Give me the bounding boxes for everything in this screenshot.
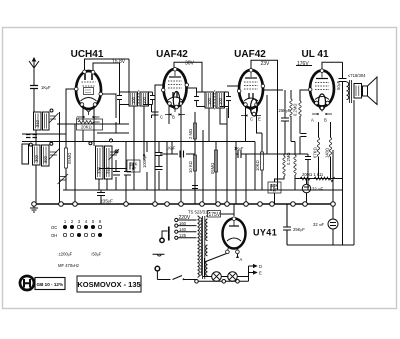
capacitor 235pF on bus	[97, 190, 105, 204]
svg-text:D: D	[259, 264, 262, 269]
svg-text:20KΩ: 20KΩ	[81, 125, 92, 130]
pin circle 3	[50, 142, 53, 145]
legend dots OC/OH	[63, 225, 101, 236]
svg-text:OC: OC	[51, 225, 57, 230]
wire V3 plate right	[263, 89, 283, 91]
coil L1a2 upper	[43, 112, 50, 130]
cathode ring V4	[319, 94, 326, 110]
resistor 10K vertical	[194, 155, 197, 171]
svg-text:2 MΩ: 2 MΩ	[188, 129, 193, 139]
capacitor small right	[305, 154, 311, 190]
svg-text:30V: 30V	[185, 61, 195, 67]
earth terminal	[160, 227, 169, 243]
wire coupling to UL41 grid	[236, 153, 308, 155]
mains switch lever	[173, 276, 197, 280]
svg-text:175V: 175V	[209, 212, 221, 218]
trimmer upper	[49, 113, 59, 123]
svg-text:200Ω 1 KΩ: 200Ω 1 KΩ	[302, 172, 323, 177]
wire x75	[74, 124, 76, 204]
svg-text:C: C	[250, 117, 253, 122]
capacitor 50pF	[339, 79, 347, 82]
svg-text:TS 523/315: TS 523/315	[188, 210, 210, 215]
svg-text:UAF42: UAF42	[234, 49, 266, 60]
ground symbol	[30, 204, 38, 212]
box 175V	[208, 211, 221, 218]
wire ground bus	[34, 203, 333, 205]
cathode ring V2	[173, 92, 179, 109]
svg-text:300: 300	[43, 155, 48, 163]
capacitor x159	[156, 167, 163, 170]
wire UY41 cathode drop	[205, 254, 238, 277]
coil osc 1	[96, 146, 104, 179]
pot 0.5M vertical	[215, 150, 218, 172]
svg-text:50pF: 50pF	[336, 81, 341, 90]
title box	[77, 276, 141, 292]
svg-text:15.8V: 15.8V	[112, 59, 126, 65]
svg-text:A: A	[311, 118, 314, 123]
resistor 67K wavy	[317, 138, 319, 157]
svg-text:100: 100	[142, 96, 147, 104]
svg-text:160: 160	[179, 221, 187, 226]
wire top rail stage1	[85, 59, 130, 72]
wire x293	[291, 90, 295, 190]
svg-text:235pF: 235pF	[100, 199, 113, 205]
fuse symbol	[153, 254, 165, 256]
resistor grid wavy x300	[299, 101, 301, 116]
wire x227	[226, 108, 228, 204]
svg-text:100: 100	[131, 96, 136, 104]
svg-text:125: 125	[179, 233, 187, 238]
svg-text:310: 310	[35, 119, 40, 127]
svg-text:32 mF: 32 mF	[313, 222, 324, 227]
wire top rail stage1b	[93, 63, 120, 92]
svg-text:05MΩ: 05MΩ	[210, 163, 215, 174]
coil L1c lower	[42, 145, 50, 166]
svg-text:UL 41: UL 41	[301, 49, 328, 60]
tube V3 UAF42	[237, 68, 264, 116]
svg-text:23V: 23V	[261, 61, 271, 67]
wire lamps	[203, 266, 249, 281]
coil L1a antenna upper	[34, 112, 42, 130]
capacitor antenna 1KpF	[30, 86, 38, 89]
svg-text:UAF42: UAF42	[156, 49, 188, 60]
capacitor osc pad b	[124, 172, 131, 176]
wire antenna coil down	[35, 130, 37, 204]
wire output resistor line	[295, 178, 343, 180]
svg-text:25KpF: 25KpF	[279, 108, 291, 113]
primary box	[22, 144, 29, 164]
wire x333	[332, 150, 334, 245]
logo mark	[20, 276, 65, 290]
resistor 0.5M avc	[65, 148, 68, 168]
svg-text:GB 10 - 12%: GB 10 - 12%	[37, 282, 64, 287]
svg-text:UCH41: UCH41	[71, 49, 104, 60]
wire V3 pins down	[246, 107, 263, 142]
capacitor 100KpF mid	[156, 153, 163, 156]
wire IF1 bottoms	[120, 105, 152, 191]
coil osc 2	[105, 146, 113, 179]
svg-text:100: 100	[218, 97, 223, 105]
wire x203	[202, 130, 204, 204]
svg-text:C: C	[160, 115, 163, 120]
capacitor coupling V2 out	[180, 151, 184, 158]
capacitor 25KpF vertical	[281, 118, 289, 121]
wire x126	[125, 142, 127, 205]
resistor 1Kohm	[314, 177, 335, 182]
svg-text:1KpF: 1KpF	[234, 146, 244, 151]
wire x147	[146, 142, 148, 191]
svg-text:10 KΩ: 10 KΩ	[188, 161, 193, 173]
wire top rail stage4	[296, 62, 343, 71]
wire heater line	[197, 280, 249, 282]
wire antenna lead	[33, 75, 35, 112]
padder cap	[58, 174, 69, 184]
transformer taps	[175, 218, 197, 239]
wire x270	[267, 95, 284, 204]
wire x216	[215, 142, 217, 205]
wire IF2 bottoms	[209, 107, 229, 142]
svg-text:pF: pF	[132, 166, 137, 171]
capacitor UL41 grid small	[301, 134, 307, 137]
svg-text:E: E	[258, 117, 261, 122]
pin circle 2	[50, 109, 53, 112]
capacitor 1KpF coupling	[238, 150, 241, 158]
svg-text:05MΩ: 05MΩ	[67, 153, 72, 164]
electrolytic 32mF lower	[328, 219, 338, 229]
svg-text:UY41: UY41	[253, 228, 277, 238]
cathode ring V3	[251, 99, 258, 116]
wire rail y124	[57, 123, 129, 125]
wire rail y133	[22, 133, 129, 134]
wire transformer top to 175V	[206, 214, 234, 216]
variable cap CV2	[109, 149, 120, 160]
svg-text:MF 470kHz: MF 470kHz	[58, 263, 79, 268]
svg-text:100: 100	[207, 97, 212, 105]
wire x159	[158, 142, 160, 191]
capacitor 50KpF mid box	[127, 160, 140, 172]
wire x307 cap32	[306, 179, 308, 205]
IF can 2	[194, 90, 231, 110]
capacitor double pair left	[26, 135, 37, 138]
wire B- rail	[63, 189, 343, 191]
node circles on ground bus	[32, 202, 336, 207]
svg-text:330: 330	[97, 166, 102, 174]
IF can 1	[117, 90, 155, 108]
wire x66 avc resistor	[66, 89, 76, 190]
pin circle osc a	[89, 142, 92, 145]
svg-text:±200µF: ±200µF	[59, 252, 73, 257]
pin circle 1	[29, 143, 32, 146]
wire osc grid	[101, 94, 116, 190]
svg-text:1KpF: 1KpF	[166, 146, 176, 151]
speaker	[363, 77, 378, 105]
variable cap CV1	[49, 149, 60, 160]
dial lamp 2	[228, 272, 238, 282]
arrow A	[236, 255, 239, 258]
resistor 0.2M vertical wavy	[290, 99, 292, 117]
wire AVC bus	[22, 141, 255, 143]
svg-text:OH: OH	[51, 233, 57, 238]
svg-text:A: A	[240, 257, 243, 262]
svg-text:10KΩ: 10KΩ	[255, 160, 260, 171]
svg-text:0.2MΩ: 0.2MΩ	[293, 103, 298, 116]
wire V2 pins down	[169, 106, 181, 204]
capacitor 25KpF bottom	[283, 204, 291, 245]
wire x167	[166, 142, 168, 191]
tube V4 UL41	[308, 69, 334, 115]
heater terminals	[195, 280, 240, 284]
capacitor on x195	[192, 186, 198, 189]
pin circle cv2	[115, 150, 118, 153]
wire V3 grid left	[227, 85, 239, 87]
wire B+ vertical x345	[342, 62, 344, 245]
svg-text:⁝50µF: ⁝50µF	[91, 252, 102, 257]
svg-text:25KpF: 25KpF	[293, 227, 305, 232]
dial lamp 1	[212, 272, 222, 282]
svg-text:1KµF: 1KµF	[41, 85, 51, 90]
capacitor osc pad a	[113, 172, 120, 176]
resistor 20K under V1 box	[77, 119, 103, 130]
svg-text:E: E	[259, 271, 262, 276]
wire x246	[245, 154, 247, 204]
svg-text:C: C	[94, 116, 97, 121]
svg-text:B: B	[324, 118, 327, 123]
wire V2 grid left	[155, 85, 164, 133]
svg-text:B: B	[172, 115, 175, 120]
wire x195	[194, 112, 196, 204]
resistor 10K vertical b	[261, 152, 264, 170]
wire top rail stage3	[251, 60, 278, 190]
wire bottom right return	[287, 244, 354, 246]
svg-text:310: 310	[106, 166, 111, 174]
wire osc mid tap	[99, 168, 127, 170]
svg-text:67KΩ: 67KΩ	[313, 147, 318, 158]
mains terminal	[155, 266, 170, 279]
antenna	[29, 58, 39, 75]
wire V2 plate to IF2	[187, 88, 197, 92]
svg-text:pF: pF	[273, 188, 278, 193]
output transformer T2	[347, 80, 362, 103]
tube V2 UAF42	[161, 67, 188, 115]
svg-text:≤718/304: ≤718/304	[348, 73, 366, 78]
arrow D	[249, 265, 257, 268]
wire x236	[235, 142, 237, 205]
wire UL41 cathode	[319, 122, 331, 179]
svg-text:176V: 176V	[297, 61, 309, 67]
tube V1 UCH41	[75, 70, 103, 118]
svg-text:G: G	[76, 116, 79, 121]
wire x262	[261, 133, 263, 190]
resistor 140 wavy	[329, 138, 331, 157]
capacitor 50KpF box	[268, 182, 281, 193]
resistor 0.2M b wavy	[283, 156, 285, 176]
tube V5 UY41	[223, 217, 246, 254]
electrolytic 32mF top	[302, 184, 310, 192]
wire x283 cap	[284, 90, 286, 154]
resistor 2M vertical	[194, 123, 197, 139]
svg-text:300: 300	[34, 154, 39, 162]
svg-text:100KpF: 100KpF	[142, 153, 147, 168]
wire speaker return x354	[353, 100, 355, 245]
svg-text:32 mF: 32 mF	[312, 187, 323, 192]
svg-text:0.2MΩ: 0.2MΩ	[286, 152, 291, 165]
svg-text:140Ω: 140Ω	[325, 148, 330, 158]
switch contact dot	[183, 278, 185, 280]
wire screen feed x129	[128, 59, 130, 92]
wire x155	[154, 133, 156, 204]
resistor 200ohm	[300, 177, 310, 180]
wire UL41 grid	[300, 90, 310, 154]
wire osc anode	[83, 104, 107, 190]
wire coupling V2	[160, 142, 195, 155]
wire x59	[59, 112, 61, 204]
pin circle osc b	[110, 139, 113, 142]
wire x287 filter	[286, 204, 288, 245]
wire top rail stage2	[174, 62, 202, 92]
capacitor V2 grid	[152, 112, 159, 115]
power transformer T1	[198, 216, 208, 279]
svg-text:140: 140	[179, 227, 187, 232]
wire x255	[254, 142, 256, 191]
arrow E	[249, 271, 257, 274]
resistor cathode wavy x295	[294, 155, 296, 175]
svg-text:KOSMOVOX - 135: KOSMOVOX - 135	[77, 280, 140, 289]
wire UY41 plate feed	[233, 204, 235, 216]
coil L1b lower	[33, 145, 41, 165]
